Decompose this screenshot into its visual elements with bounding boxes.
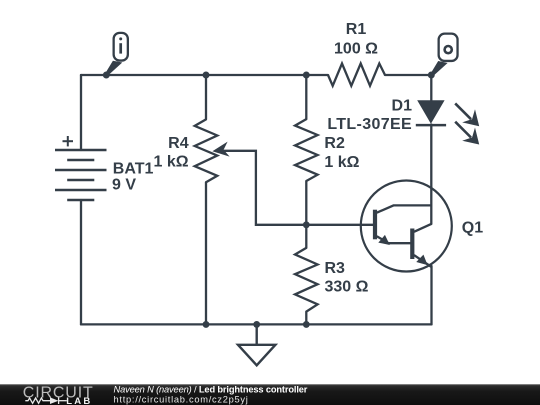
node o flag xyxy=(431,34,458,76)
svg-text:R1: R1 xyxy=(346,21,367,38)
Q1 second emitter xyxy=(414,255,432,267)
svg-text:1 kΩ: 1 kΩ xyxy=(154,153,189,170)
Q1 first collector xyxy=(377,205,432,212)
wire Q1 emitter to bottom rail xyxy=(430,266,432,324)
footer logo mini circuit glyph xyxy=(25,397,67,404)
junction dot R4 top xyxy=(203,72,210,79)
resistor R2 xyxy=(295,119,318,181)
D1 light arrow 2 xyxy=(455,122,479,145)
wire D1 cathode to Q1 collector xyxy=(430,125,432,225)
Q1 first base bar xyxy=(373,210,377,240)
junction dot base node xyxy=(303,221,310,228)
svg-text:9 V: 9 V xyxy=(112,177,136,194)
wire node o to D1 anode xyxy=(430,75,432,101)
Q1 first emitter arrowhead xyxy=(378,234,391,245)
junction dot R2 top xyxy=(303,72,310,79)
Q1 second emitter arrowhead xyxy=(416,254,429,266)
svg-text:R4: R4 xyxy=(168,135,189,152)
svg-text:BAT1: BAT1 xyxy=(113,160,154,177)
svg-text:330 Ω: 330 Ω xyxy=(325,279,369,296)
battery BAT1 xyxy=(55,150,107,200)
resistor R1 xyxy=(328,64,385,86)
Q1 circle xyxy=(361,181,452,272)
wire R2 bottom xyxy=(305,181,307,225)
ground xyxy=(238,324,275,365)
svg-text:http://circuitlab.com/cz2p5yj: http://circuitlab.com/cz2p5yj xyxy=(114,394,249,404)
wire top rail left xyxy=(81,74,328,76)
wire R3 bottom xyxy=(305,312,307,325)
wire base node to Q1 xyxy=(306,224,373,226)
svg-text:R3: R3 xyxy=(325,260,346,277)
transistor Q1 (darlington pair) xyxy=(361,181,452,272)
D1 light arrow 1 xyxy=(455,103,479,126)
wire R1 right to node o xyxy=(385,74,431,76)
svg-text:100 Ω: 100 Ω xyxy=(334,40,378,57)
LED D1 xyxy=(416,100,479,144)
Q1 first emitter xyxy=(377,236,389,243)
svg-text:LAB: LAB xyxy=(66,396,92,405)
footer bar xyxy=(0,384,540,405)
junction dot node i xyxy=(103,72,110,79)
wire bottom rail xyxy=(81,323,432,325)
R4 wiper arrow xyxy=(212,142,229,157)
svg-text:Q1: Q1 xyxy=(462,219,483,236)
wire R4 wiper to base node xyxy=(224,151,306,225)
wire R2 top xyxy=(305,75,307,119)
junction dot R4 bottom xyxy=(203,321,210,328)
junction dot node o xyxy=(428,72,435,79)
svg-text:R2: R2 xyxy=(324,135,345,152)
wire battery positive vertical xyxy=(80,75,82,150)
wire R4 top xyxy=(205,75,207,119)
svg-text:1 kΩ: 1 kΩ xyxy=(324,154,359,171)
svg-text:LTL-307EE: LTL-307EE xyxy=(327,116,412,133)
battery plus sign xyxy=(63,136,74,146)
svg-text:D1: D1 xyxy=(392,97,413,114)
junction dot R3 bottom xyxy=(303,321,310,328)
resistor R3 xyxy=(295,248,318,312)
wire R4 bottom xyxy=(205,182,207,324)
node i flag xyxy=(105,33,128,76)
svg-text:Naveen N (naveen) / Led bright: Naveen N (naveen) / Led brightness contr… xyxy=(114,385,308,395)
wire R3 top xyxy=(305,225,307,248)
wire battery negative to bottom rail xyxy=(80,200,82,324)
potentiometer R4 xyxy=(195,119,218,182)
junction dot ground xyxy=(253,321,260,328)
Q1 second base bar xyxy=(410,229,414,260)
Q1 second collector xyxy=(414,224,431,232)
